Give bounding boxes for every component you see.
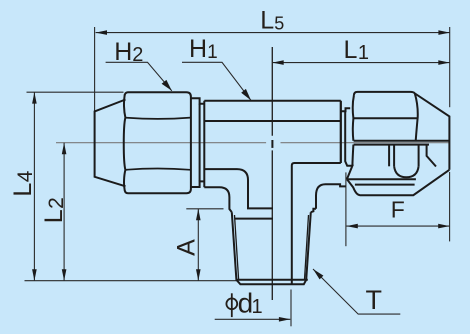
left nut body <box>124 92 191 193</box>
dimension L4 <box>33 92 35 281</box>
L5/L1 right extension <box>449 27 451 107</box>
L4 top extension <box>27 91 124 93</box>
left nut cone <box>95 100 126 187</box>
dimension L1 <box>272 62 449 64</box>
dimension A <box>197 209 199 281</box>
svg-text:F: F <box>391 196 405 222</box>
svg-text:L2: L2 <box>40 197 68 223</box>
left contour 1 with fillet <box>204 169 273 208</box>
thread inner top line <box>235 218 273 220</box>
leader H2 <box>106 62 172 91</box>
right jog to thread <box>311 209 316 212</box>
left sleeve steps <box>191 98 204 187</box>
dimension phi d1 <box>215 318 291 320</box>
body end vertical <box>340 101 342 163</box>
body left edge <box>203 101 205 188</box>
svg-text:L4: L4 <box>9 170 37 196</box>
leader T <box>313 269 400 314</box>
A top extension <box>186 208 223 210</box>
L5 left extension <box>94 27 96 111</box>
label phi d1 <box>226 288 262 319</box>
left nut flat divisions <box>125 118 190 170</box>
body right lower line <box>292 163 341 284</box>
bottom baseline extension <box>25 280 237 282</box>
body top line <box>204 100 340 102</box>
thread <box>232 212 311 284</box>
dimension L5 <box>96 32 450 34</box>
dimension F <box>346 225 449 227</box>
F right extension <box>449 172 451 241</box>
svg-text:A: A <box>173 239 201 256</box>
right nut boat bottom <box>347 170 450 195</box>
horizontal centerline <box>56 142 449 144</box>
left contour 2 with fillet <box>204 187 232 212</box>
F left extension <box>345 172 347 246</box>
right contour with fillet <box>316 184 346 209</box>
svg-text:1: 1 <box>252 296 263 318</box>
phi-d1 right extension <box>290 290 292 327</box>
body outline <box>204 101 345 285</box>
right washer <box>341 101 353 179</box>
leader H1 <box>182 62 251 100</box>
svg-text:T: T <box>366 285 383 315</box>
vertical centerline <box>271 47 273 300</box>
right nut upper <box>353 92 450 170</box>
dimension L2 <box>63 143 65 281</box>
body second line <box>204 120 340 122</box>
right nut lower <box>352 145 436 178</box>
